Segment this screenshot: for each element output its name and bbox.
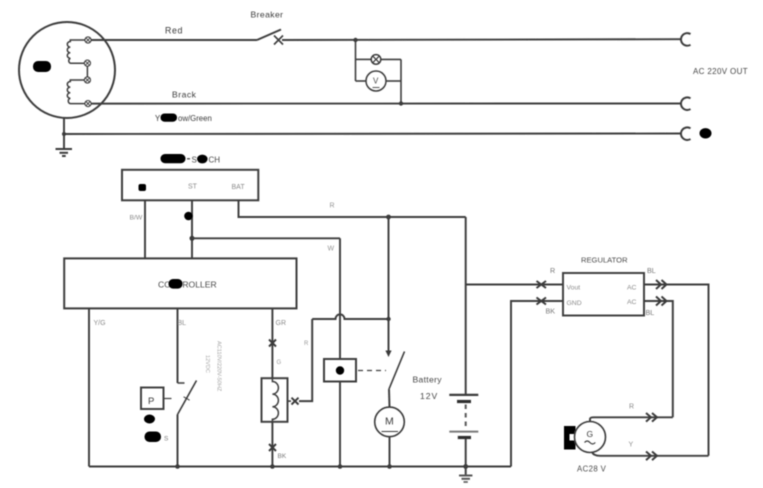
svg-text:12VDC: 12VDC bbox=[204, 355, 210, 373]
wire Y/G from controller bbox=[88, 308, 90, 466]
label ST bbox=[188, 184, 198, 191]
wire coil-to-starter horizontal with hop bbox=[312, 314, 388, 319]
junction rail relay bbox=[338, 464, 343, 469]
svg-text:G: G bbox=[277, 360, 282, 366]
label Yellow/Green bbox=[155, 114, 212, 124]
oil pressure box P bbox=[141, 388, 164, 410]
wire switch pin2 to controller bbox=[191, 200, 193, 258]
starter switch S3 contact arrow bbox=[385, 351, 391, 358]
wire right branch vertical bbox=[400, 59, 402, 103]
junction rail coil bbox=[270, 464, 275, 469]
wire Red right of breaker bbox=[282, 38, 681, 41]
svg-text:GND: GND bbox=[567, 300, 582, 307]
relay K1 bbox=[324, 359, 356, 382]
svg-text:B/W: B/W bbox=[130, 215, 143, 222]
svg-text:Y: Y bbox=[155, 114, 161, 123]
svg-text:Y/G: Y/G bbox=[94, 320, 106, 327]
label BK coil bbox=[278, 453, 287, 460]
blob at J3 bbox=[700, 128, 712, 138]
winding L2 bbox=[67, 80, 85, 104]
connector J1 red out bbox=[681, 33, 691, 46]
svg-text:REGULATOR: REGULATOR bbox=[581, 256, 628, 265]
wire Yellow/Green bbox=[64, 133, 681, 136]
junction rail battery bbox=[463, 464, 468, 469]
svg-text:ow/Green: ow/Green bbox=[178, 114, 212, 123]
connector on GR wire bbox=[269, 340, 276, 347]
label B/W bbox=[130, 215, 143, 222]
indicator lamp DS1 bbox=[371, 55, 381, 65]
wire generator neutral down bbox=[63, 118, 65, 150]
svg-text:S: S bbox=[192, 156, 197, 165]
terminal pin 4 bbox=[85, 101, 91, 107]
wire lamp branch vertical bbox=[355, 40, 357, 81]
battery BT1 bbox=[449, 395, 478, 467]
label BL bbox=[178, 320, 187, 327]
svg-text:W: W bbox=[328, 246, 335, 253]
blob on pin2 wire bbox=[184, 212, 193, 221]
label G small bbox=[277, 360, 282, 366]
svg-text:R: R bbox=[304, 341, 309, 347]
svg-text:Battery: Battery bbox=[413, 375, 443, 385]
junction lamp tap on red wire bbox=[353, 38, 357, 42]
label R generator bbox=[629, 404, 634, 411]
label BAT bbox=[232, 184, 246, 191]
svg-text:Y: Y bbox=[629, 442, 634, 449]
svg-text:CONTROLLER: CONTROLLER bbox=[158, 280, 217, 290]
svg-text:AC: AC bbox=[627, 285, 637, 292]
generator G2 flywheel blob bbox=[564, 426, 576, 450]
generator plug G1 body bbox=[19, 22, 115, 118]
wire lamp to right branch bbox=[381, 58, 401, 60]
svg-text:R: R bbox=[629, 404, 634, 411]
label switch (redacted) bbox=[161, 154, 221, 165]
wire coil to relay branch bbox=[288, 400, 292, 402]
label AC28 V bbox=[577, 465, 607, 474]
connector J2 black out bbox=[681, 97, 691, 110]
wire BK from regulator GND bbox=[511, 301, 563, 467]
label GND bbox=[567, 300, 582, 307]
ground GND1 bbox=[56, 149, 73, 156]
svg-text:BAT: BAT bbox=[232, 184, 246, 191]
svg-text:BK: BK bbox=[546, 307, 556, 316]
label AC 220V OUT bbox=[693, 67, 748, 76]
svg-text:Vout: Vout bbox=[567, 285, 581, 292]
svg-text:Red: Red bbox=[165, 26, 183, 36]
junction rail motor bbox=[387, 464, 392, 469]
regulator feed vertical (battery R line) bbox=[465, 217, 467, 395]
switch box S1 bbox=[122, 170, 258, 201]
label BL top bbox=[647, 266, 656, 275]
svg-text:P: P bbox=[148, 396, 154, 407]
label BK regulator bbox=[546, 307, 556, 316]
starter switch S3 blade bbox=[389, 352, 405, 390]
wire switch pin1 to controller bbox=[144, 200, 146, 258]
svg-text:R: R bbox=[330, 203, 335, 210]
generator G1 label blob bbox=[33, 61, 51, 72]
junction R to starter bbox=[386, 215, 391, 220]
wire generator Y to regulator AC1 bbox=[592, 452, 709, 456]
wire Black bbox=[91, 103, 680, 105]
wire to lamp bbox=[356, 58, 372, 60]
connector chevrons R wire bbox=[646, 413, 657, 422]
stop switch blade tick bbox=[184, 397, 190, 400]
svg-text:M: M bbox=[385, 416, 394, 428]
svg-text:ST: ST bbox=[188, 184, 198, 191]
wire motor to rail bbox=[389, 437, 391, 467]
svg-text:12V: 12V bbox=[420, 391, 438, 401]
wire voltmeter to right branch bbox=[386, 80, 401, 82]
svg-text:G: G bbox=[587, 429, 594, 439]
label R bbox=[330, 203, 335, 210]
svg-text:AC: AC bbox=[627, 299, 637, 306]
wire BL from controller bbox=[177, 308, 179, 383]
starter motor M1 bbox=[375, 407, 405, 437]
wire coil bottom bbox=[271, 422, 273, 467]
label AC pin2 bbox=[627, 299, 637, 306]
svg-text:BL: BL bbox=[646, 308, 655, 317]
wire link pin2-pin3 bbox=[86, 66, 88, 77]
regulator U2 box bbox=[563, 273, 644, 316]
wire Red bbox=[91, 39, 257, 41]
wire relay to rail bbox=[339, 382, 341, 467]
label CONTROLLER (partly redacted) bbox=[158, 279, 217, 290]
label REGULATOR bbox=[581, 256, 628, 265]
label Battery 12V bbox=[413, 375, 443, 402]
junction starter branch bbox=[386, 317, 390, 321]
stop switch S2 contact tick bbox=[178, 382, 185, 384]
connector AC1 chevrons bbox=[656, 280, 667, 289]
svg-text:AC 220V OUT: AC 220V OUT bbox=[693, 67, 748, 76]
svg-text:R: R bbox=[550, 266, 555, 275]
svg-text:AC110V/220V-50HZ: AC110V/220V-50HZ bbox=[216, 341, 222, 392]
bottom ground rail bbox=[89, 466, 511, 468]
label R regulator bbox=[550, 266, 555, 275]
ground GND2 bbox=[459, 467, 472, 483]
wire R to regulator bbox=[466, 284, 563, 286]
svg-text:S: S bbox=[164, 436, 169, 443]
wire R from BAT bbox=[239, 200, 466, 217]
wire W vertical to relay bbox=[339, 238, 341, 359]
svg-text:AC28 V: AC28 V bbox=[577, 465, 607, 474]
terminal pin 3 bbox=[84, 77, 90, 83]
label Y/G bbox=[94, 320, 106, 327]
wire GR from controller bbox=[271, 308, 273, 378]
winding L1 bbox=[67, 40, 85, 63]
connector on R input bbox=[537, 281, 547, 288]
connector AC2 chevrons bbox=[656, 297, 667, 306]
svg-text:Brack: Brack bbox=[172, 90, 197, 100]
wire below stop switch bbox=[177, 415, 179, 467]
breaker CB1 bbox=[257, 30, 283, 45]
blob pill label bbox=[145, 432, 170, 443]
vertical note text column 1 bbox=[204, 355, 210, 373]
label GR bbox=[276, 320, 287, 327]
generator G2 bbox=[575, 422, 606, 453]
label W bbox=[328, 246, 335, 253]
svg-text:BL: BL bbox=[178, 320, 187, 327]
stop switch S2 blade bbox=[178, 381, 197, 415]
starter switch S3 feed bbox=[388, 217, 390, 351]
voltmeter V1 bbox=[366, 71, 386, 91]
svg-text:BK: BK bbox=[278, 453, 287, 460]
svg-text:Breaker: Breaker bbox=[251, 10, 284, 20]
switch box pin dot bbox=[139, 184, 147, 191]
connector on coil ground bbox=[269, 444, 276, 451]
terminal pin 1 bbox=[85, 37, 91, 43]
junction lamp branch on black wire bbox=[399, 101, 403, 105]
label Vout bbox=[567, 285, 581, 292]
wire AC1 output bbox=[644, 285, 709, 456]
junction rail BL bbox=[175, 464, 180, 469]
wire coil branch up bbox=[299, 319, 312, 401]
connector J3 yellow-green out bbox=[681, 127, 691, 140]
connector on coil output bbox=[292, 398, 299, 405]
svg-text:GR: GR bbox=[276, 320, 287, 327]
label Red bbox=[165, 26, 183, 36]
svg-text:BL: BL bbox=[647, 266, 656, 275]
link P to blade bbox=[164, 398, 172, 400]
controller U1 bbox=[64, 258, 296, 308]
svg-text:CH: CH bbox=[209, 156, 221, 165]
ignition coil T1 bbox=[262, 378, 288, 422]
label BL bottom bbox=[646, 308, 655, 317]
terminal pin 2 bbox=[84, 60, 90, 66]
wire blade to motor bbox=[388, 390, 391, 408]
blob dot under P bbox=[144, 415, 155, 424]
label Y generator bbox=[629, 442, 634, 449]
connector chevrons Y wire bbox=[646, 452, 657, 461]
label Brack bbox=[172, 90, 197, 100]
junction yellow-green tap bbox=[62, 132, 66, 136]
wire generator R to regulator AC2 bbox=[590, 417, 673, 422]
label AC pin1 bbox=[627, 285, 637, 292]
label Breaker bbox=[251, 10, 284, 20]
label R small bbox=[304, 341, 309, 347]
wire AC2 output bbox=[644, 301, 673, 417]
relay actuator dashed link bbox=[358, 370, 386, 372]
wire W horizontal bbox=[192, 237, 340, 239]
svg-text:V: V bbox=[373, 77, 379, 86]
junction W tap bbox=[190, 236, 195, 241]
connector on GND input bbox=[537, 298, 547, 305]
wire to voltmeter bbox=[356, 80, 367, 82]
vertical note text column 2 bbox=[216, 341, 222, 392]
